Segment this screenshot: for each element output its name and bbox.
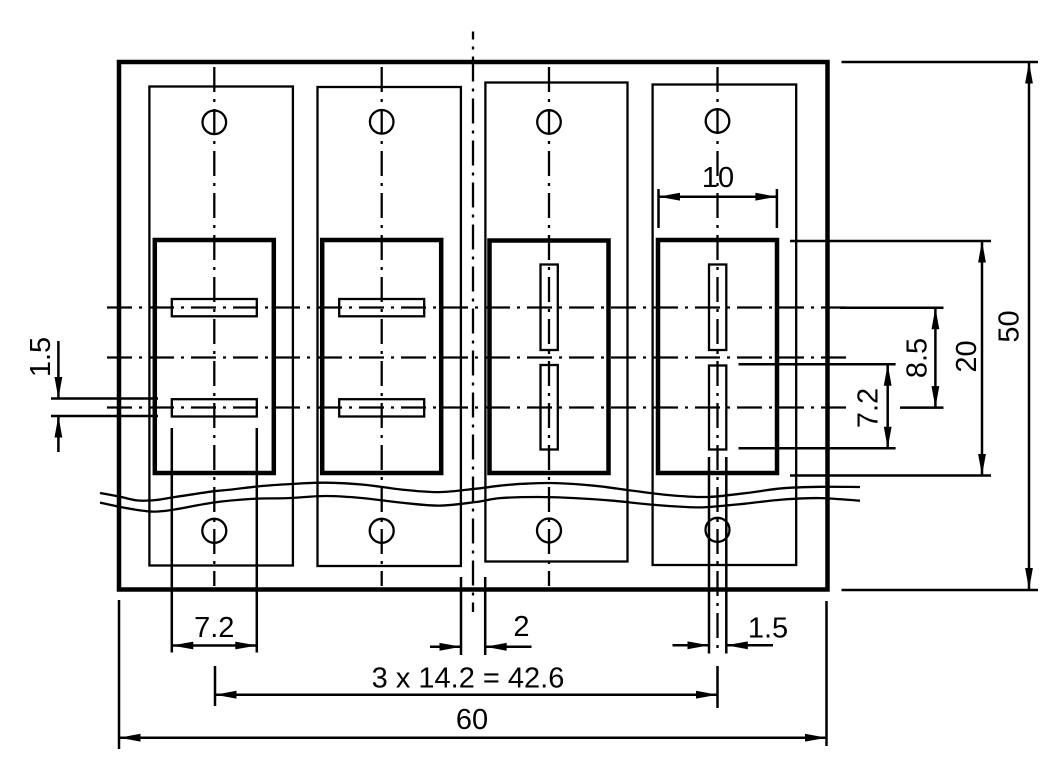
column 1 switch body [155, 240, 274, 473]
dim 1.5 bottom extension lines [709, 457, 726, 654]
dim 10 line [659, 195, 777, 198]
column 2 strip outline [318, 87, 461, 566]
svg-text:60: 60 [456, 704, 488, 736]
column 1 top hole [203, 111, 227, 135]
dim 2 extension lines [461, 577, 485, 655]
centerline column 3 vertical axis [548, 65, 550, 586]
column 4 bottom hole [706, 518, 730, 542]
svg-text:7.2: 7.2 [194, 612, 234, 644]
svg-text:8.5: 8.5 [902, 338, 934, 378]
dim 20 extension lines [790, 241, 991, 476]
column 4 upper vertical slot [709, 265, 726, 351]
dim 60 extension lines [119, 600, 827, 749]
svg-text:2: 2 [513, 611, 529, 643]
centerline column 1 vertical axis [213, 65, 215, 586]
dim 1.5 bottom line left tail [673, 644, 710, 647]
break line upper wave [100, 483, 860, 501]
dim 8.5 extension lines [840, 308, 944, 408]
svg-text:7.2: 7.2 [853, 388, 885, 428]
dim 20 line [981, 241, 984, 476]
column 3 bottom hole [537, 519, 561, 543]
column 1 bottom hole [202, 519, 226, 543]
dim 7.2 right line [886, 364, 889, 448]
column 3 switch body [490, 241, 609, 474]
centerline horizontal central axis [107, 356, 848, 358]
column 4 top hole [706, 109, 730, 133]
svg-text:10: 10 [702, 162, 734, 194]
column 1 strip outline [149, 87, 293, 566]
column 3 strip outline [485, 83, 627, 562]
dim 2 line right tail [485, 646, 531, 649]
dim 7.2 right extension lines [739, 364, 896, 448]
column 4 lower vertical slot [709, 366, 726, 450]
svg-text:1.5: 1.5 [25, 337, 57, 377]
column 4 switch body [658, 240, 777, 473]
dim 1.5 left line lower [57, 416, 60, 452]
dim 8.5 line [934, 308, 937, 408]
break line lower wave [100, 496, 860, 512]
column 2 top hole [370, 110, 394, 134]
centerline column 4 vertical axis [716, 65, 718, 654]
centerline central vertical axis [472, 32, 474, 613]
svg-text:20: 20 [951, 340, 983, 372]
dim 50 line [1028, 62, 1031, 590]
dim 3x14.2 line [215, 693, 718, 696]
centerline column 2 vertical axis [381, 65, 383, 586]
column 3 upper vertical slot [541, 265, 558, 351]
svg-text:50: 50 [994, 310, 1026, 342]
column 1 upper horizontal slot [172, 299, 257, 316]
dim 10 extension lines [659, 189, 777, 228]
svg-text:3 x 14.2 = 42.6: 3 x 14.2 = 42.6 [372, 663, 565, 695]
column 3 top hole [537, 110, 561, 134]
dim 2 line left tail [430, 646, 461, 649]
svg-text:1.5: 1.5 [748, 613, 788, 645]
column 1 lower horizontal slot [172, 399, 257, 416]
centerline row 1 (upper slot row axis) [107, 306, 850, 308]
centerline row 2 (lower slot row axis) [107, 406, 852, 408]
column 2 upper horizontal slot [339, 299, 424, 316]
column 2 lower horizontal slot [339, 399, 424, 416]
dim 1.5 bottom line right tail [726, 644, 773, 647]
column 2 switch body [322, 240, 441, 473]
outer panel outline [119, 62, 828, 590]
dim 7.2 bottom line [172, 644, 257, 647]
dim 50 extension lines [842, 62, 1039, 590]
column 4 strip outline [653, 85, 797, 566]
dim 1.5 left extension lines [51, 399, 158, 417]
dim 1.5 left line upper [57, 341, 60, 399]
column 2 bottom hole [370, 519, 394, 543]
dim 7.2 bottom extension lines [172, 428, 257, 653]
column 3 lower vertical slot [541, 365, 558, 450]
dim 60 line [119, 736, 827, 739]
dim 3x14.2 extension lines [215, 666, 718, 708]
